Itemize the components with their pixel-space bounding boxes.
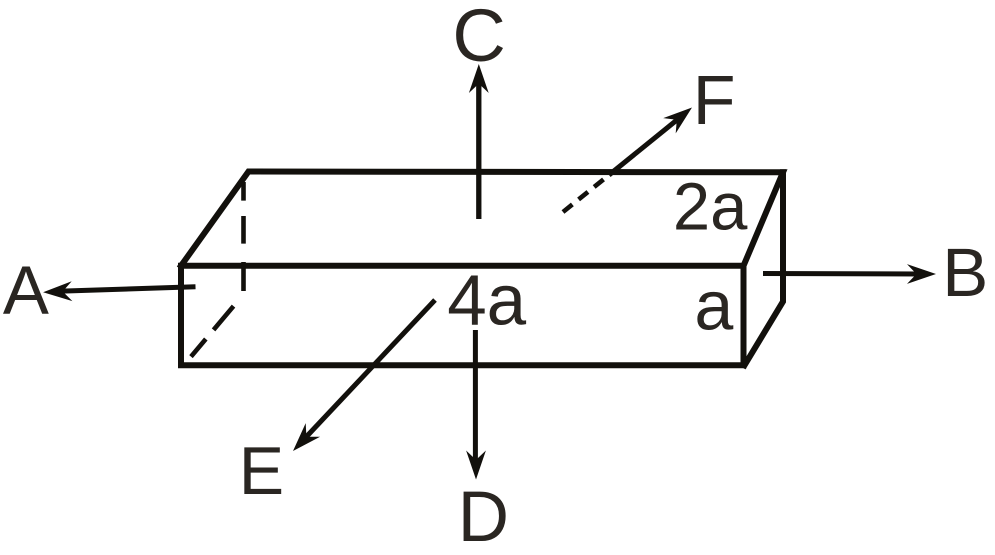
- svg-text:A: A: [3, 252, 49, 329]
- svg-text:4a: 4a: [447, 262, 526, 341]
- svg-text:a: a: [694, 267, 733, 345]
- svg-text:C: C: [452, 0, 505, 77]
- svg-text:B: B: [942, 234, 988, 311]
- svg-text:D: D: [458, 478, 509, 555]
- svg-text:F: F: [693, 61, 736, 139]
- svg-text:E: E: [239, 433, 284, 509]
- svg-text:2a: 2a: [673, 169, 748, 244]
